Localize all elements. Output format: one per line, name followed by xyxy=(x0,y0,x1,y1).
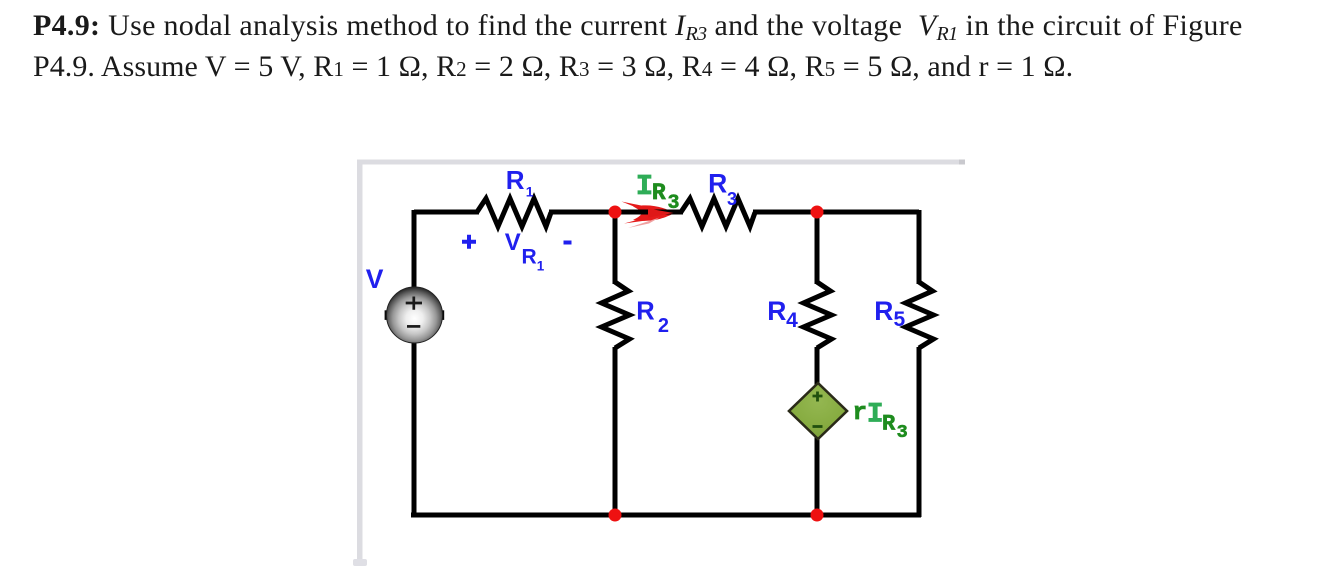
svg-text:R: R xyxy=(767,296,786,326)
image border strip top end cap xyxy=(959,160,965,165)
image border strip left xyxy=(357,160,363,561)
wire R4 branch lower xyxy=(815,347,820,515)
node bottom-right xyxy=(811,509,824,522)
svg-text:I: I xyxy=(636,170,653,203)
svg-text:3: 3 xyxy=(668,192,680,215)
svg-text:3: 3 xyxy=(897,422,908,443)
node top-right xyxy=(811,206,824,219)
wire right lower xyxy=(917,347,922,517)
dependent source rIR3 (diamond) xyxy=(789,383,847,439)
svg-text:1: 1 xyxy=(537,259,545,274)
svg-text:R: R xyxy=(636,298,654,326)
label R1 xyxy=(506,165,534,200)
label R3 xyxy=(708,169,737,210)
svg-text:R: R xyxy=(882,412,896,437)
wire right upper xyxy=(917,210,922,284)
wire top-middle segment xyxy=(549,210,683,215)
label R2 xyxy=(636,298,669,338)
voltage source V xyxy=(385,287,445,343)
svg-text:2: 2 xyxy=(658,315,669,337)
label r IR3 (green, at diamond) xyxy=(853,400,908,444)
resistor R5 xyxy=(906,282,934,348)
wire top-right segment xyxy=(753,210,919,215)
resistor R1 xyxy=(477,199,551,227)
svg-text:3: 3 xyxy=(727,189,737,209)
resistor R4 xyxy=(804,282,832,348)
label + (VR1 plus) xyxy=(462,235,476,249)
label - (VR1 minus) xyxy=(564,241,572,245)
label IR3 (green, at arrow) xyxy=(636,170,680,215)
svg-text:V: V xyxy=(505,229,521,256)
wire left xyxy=(412,210,417,515)
label R4 xyxy=(767,296,798,332)
resistor R2 xyxy=(602,282,630,348)
wire middle branch lower xyxy=(613,347,618,515)
svg-text:5: 5 xyxy=(894,308,906,331)
wire bottom xyxy=(411,513,921,518)
svg-text:V: V xyxy=(366,264,384,294)
svg-text:R: R xyxy=(708,169,727,199)
svg-text:1: 1 xyxy=(526,184,534,200)
current arrow IR3 (body under wire) xyxy=(622,202,675,229)
svg-text:4: 4 xyxy=(786,309,798,332)
svg-text:R: R xyxy=(522,246,537,269)
image border strip top xyxy=(357,160,965,165)
wire middle branch upper xyxy=(613,212,618,284)
svg-text:R: R xyxy=(506,165,525,195)
label R5 xyxy=(874,296,905,331)
node bottom-middle xyxy=(609,509,622,522)
svg-text:r: r xyxy=(853,400,867,427)
svg-text:R: R xyxy=(874,296,893,326)
svg-text:R: R xyxy=(652,180,666,206)
resistor R3 xyxy=(681,199,755,227)
label VR1 xyxy=(505,229,545,274)
wire top-left segment xyxy=(414,210,479,215)
problem statement text xyxy=(33,7,1322,88)
current arrow IR3 tip (over wire) xyxy=(648,209,674,218)
node top-middle xyxy=(609,206,622,219)
image border strip bottom end cap xyxy=(353,559,367,566)
wire R4 branch upper xyxy=(815,212,820,284)
